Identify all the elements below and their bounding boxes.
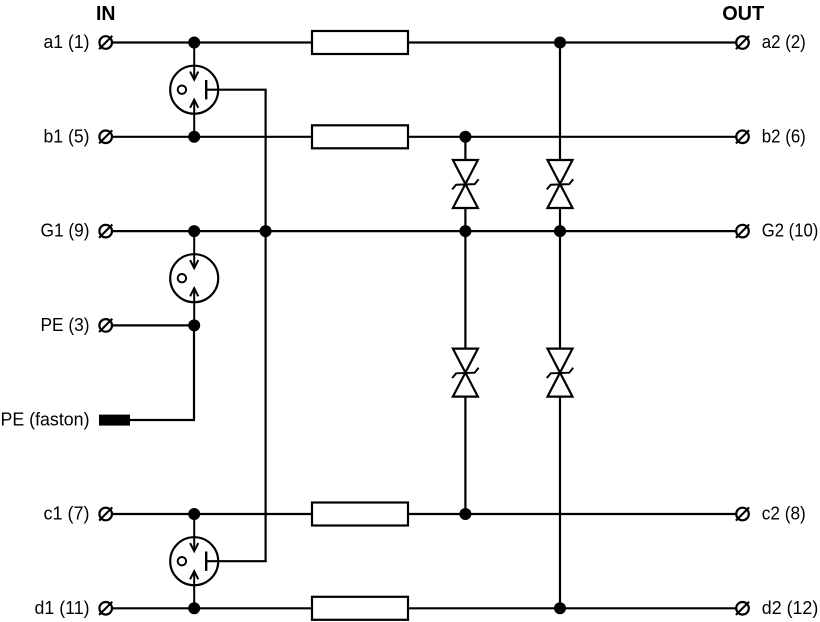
terminal G2 (10) [736,225,749,238]
wire PE (3) segment [112,324,194,326]
suppressor diode D4 (G2-d2 right column) [547,349,573,397]
svg-text:OUT: OUT [722,3,764,25]
suppressor diode D2 (a2-G2 right column) [547,160,573,208]
wire d1 left segment [112,607,312,609]
svg-text:d2 (12): d2 (12) [762,598,819,618]
svg-text:b1 (5): b1 (5) [44,126,90,146]
node G2-D2/D4 junction [554,225,566,237]
svg-text:G1 (9): G1 (9) [41,221,90,241]
node b1-F1 junction [188,131,200,143]
wire G2 node to D4 [559,231,561,349]
gas discharge tube F1 (a1-b1, 3-electrode) [170,43,218,137]
series box line a [312,31,408,54]
node a1-F1 junction [188,37,200,49]
svg-text:a1 (1): a1 (1) [44,32,90,52]
wire b1 left segment [112,136,312,138]
terminal d1 (11) [99,602,112,615]
node c1-F3 junction [188,508,200,520]
terminal G1 (9) [99,225,112,238]
svg-text:b2 (6): b2 (6) [762,126,806,146]
wire c2 right segment [408,513,736,515]
series box line c [312,503,408,526]
svg-text:d1 (11): d1 (11) [35,598,90,618]
wire c1 left segment [112,513,312,515]
node G2-D1/D3 junction [459,225,471,237]
terminal a2 (2) [736,36,749,49]
node c2-D3 junction [459,508,471,520]
wire D3 to c2 node [464,397,466,514]
svg-text:a2 (2): a2 (2) [762,32,806,52]
terminal b1 (5) [99,130,112,143]
svg-text:PE (3): PE (3) [41,315,90,335]
svg-text:G2 (10): G2 (10) [762,221,819,241]
svg-text:IN: IN [96,3,116,25]
terminal PE faston [99,415,130,426]
wire b2 right segment [408,136,736,138]
wire G2 node to D3 [464,231,466,349]
node G1-ground bus junction [260,225,272,237]
node b2-D1 junction [459,131,471,143]
wire G1-G2 [112,230,736,232]
svg-text:c1 (7): c1 (7) [44,504,90,524]
wire D4 to d2 node (crosses c2) [559,397,561,609]
terminal b2 (6) [736,130,749,143]
terminal c2 (8) [736,507,749,520]
suppressor diode D3 (G2-c2 left column) [452,349,478,397]
node a2-D2 junction [554,37,566,49]
wire D1 to G2 node [464,208,466,231]
node d2-D4 junction [554,602,566,614]
wire d2 right segment [408,607,736,609]
suppressor diode D1 (b2-G2 left column) [452,160,478,208]
node d1-F3 junction [188,602,200,614]
series box line b [312,125,408,148]
wire a2 right segment [408,41,736,43]
terminal d2 (12) [736,602,749,615]
terminal PE (3) [99,319,112,332]
wire PE faston to PE node [130,325,194,420]
gas discharge tube F3 (c1-d1, 3-electrode) [170,514,218,608]
gas discharge tube F2 (G1-PE, 2-electrode) [170,231,218,325]
wire a2 node to D2 [559,43,561,161]
wire a1 left segment [112,41,312,43]
wire F1 electrode to ground bus [206,89,267,91]
terminal c1 (7) [99,507,112,520]
ground bus vertical [265,90,267,562]
terminal a1 (1) [99,36,112,49]
wire F3 electrode to ground bus [206,560,267,562]
wire D2 to G2 node [559,208,561,231]
node PE junction [188,319,200,331]
svg-text:PE (faston): PE (faston) [1,410,90,430]
node G1-F2 junction [188,225,200,237]
series box line d [312,597,408,620]
svg-text:c2 (8): c2 (8) [762,504,806,524]
wire b2 node to D1 [464,137,466,160]
